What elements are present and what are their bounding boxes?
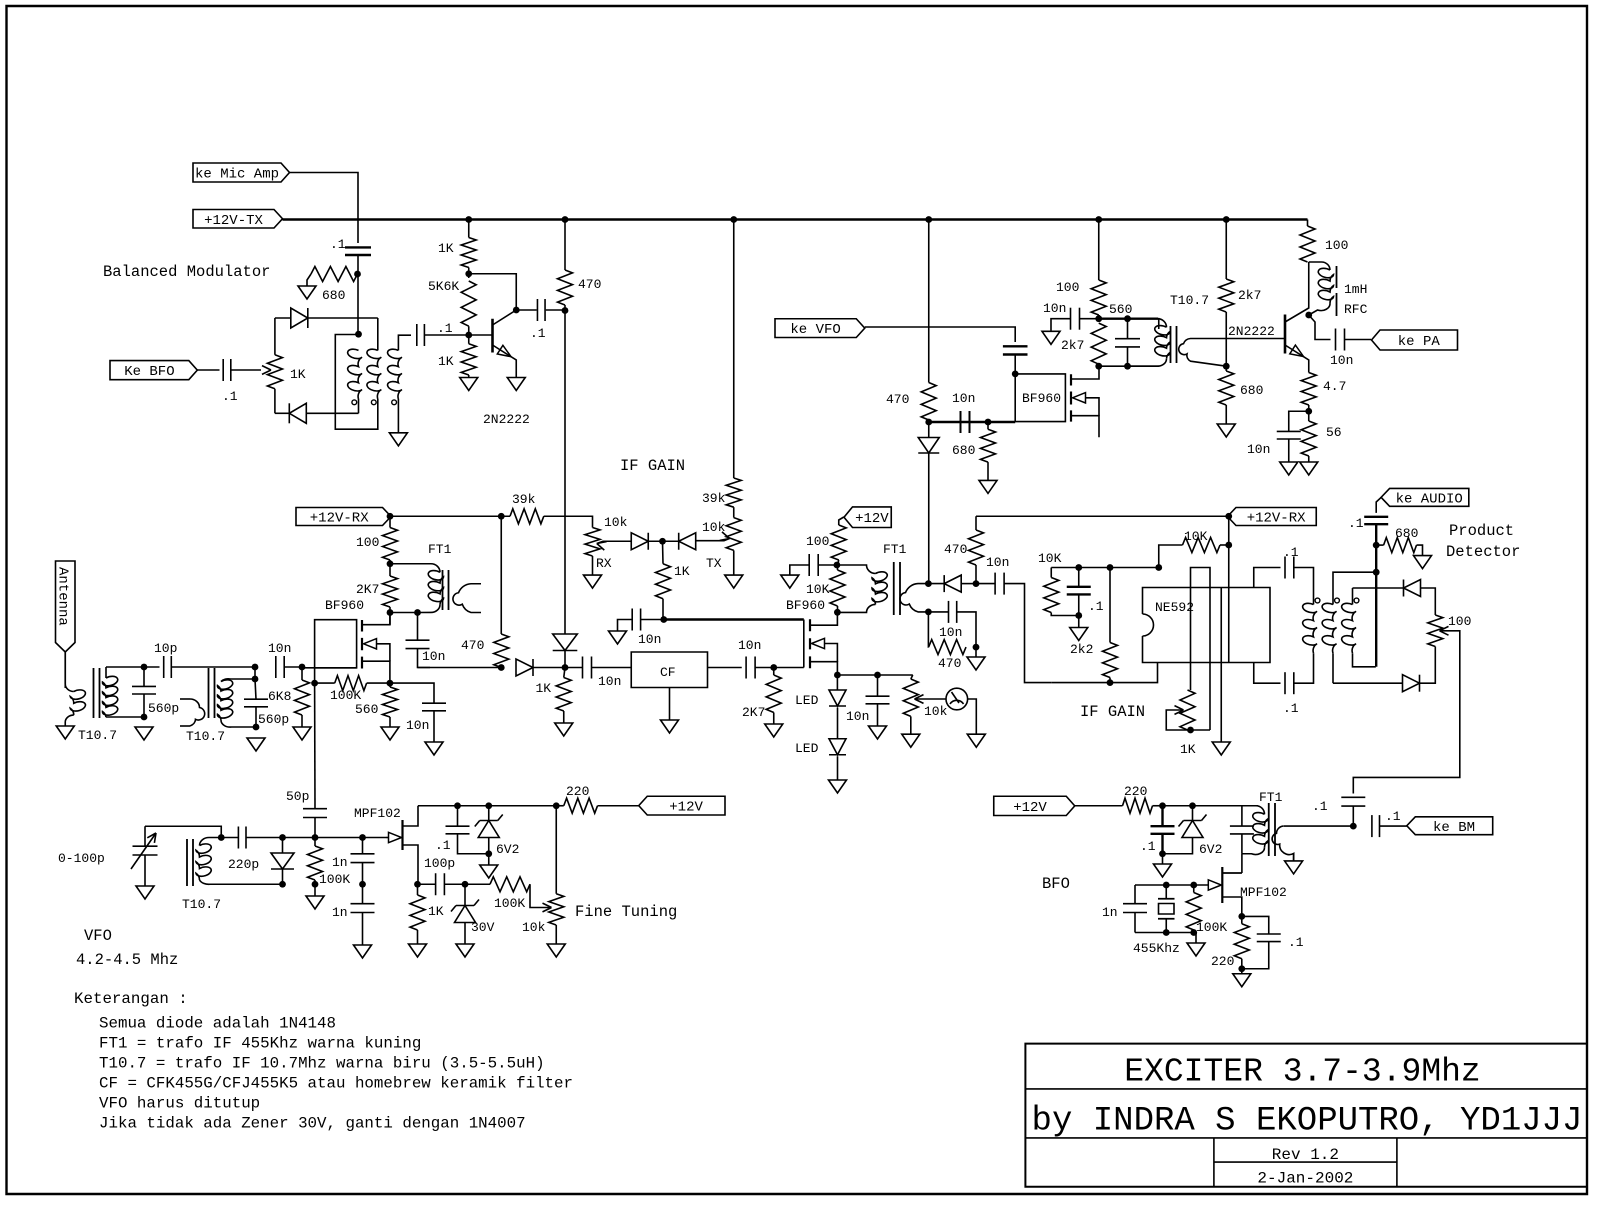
junction rail bbox=[1095, 216, 1102, 223]
emitter arrow Q1 bbox=[497, 345, 511, 356]
capacitor 1n a bbox=[351, 838, 375, 885]
wire bfo in bbox=[197, 369, 219, 371]
ground 560p 2nd bbox=[247, 738, 265, 751]
wire bbox=[1075, 805, 1123, 807]
flag +12V vfo bbox=[639, 796, 725, 815]
junction bbox=[253, 724, 260, 731]
note line 5 bbox=[99, 1095, 260, 1113]
label 2K7 bbox=[356, 582, 379, 597]
svg-text:100K: 100K bbox=[1196, 920, 1227, 935]
capacitor 1n bfo bbox=[1123, 885, 1147, 933]
label Detector bbox=[1446, 543, 1520, 561]
ground varcap bbox=[136, 886, 154, 899]
svg-text:2k2: 2k2 bbox=[1070, 642, 1093, 657]
svg-text:.1: .1 bbox=[437, 321, 453, 336]
note line 6 bbox=[99, 1115, 526, 1133]
variable capacitor 0-100p bbox=[131, 826, 158, 886]
flag +12V-TX bbox=[193, 210, 283, 229]
diode det top bbox=[1404, 580, 1421, 597]
svg-text:Ke BFO: Ke BFO bbox=[124, 364, 174, 380]
svg-text:Rev 1.2: Rev 1.2 bbox=[1272, 1146, 1339, 1164]
label 10n bbox=[939, 625, 962, 640]
ground 6V2 bbox=[480, 854, 498, 878]
label 10K bbox=[1184, 529, 1208, 544]
ground 10n meter bbox=[869, 726, 887, 739]
transformer T1 secondary bbox=[388, 349, 402, 399]
flag +12V bfo bbox=[994, 796, 1075, 816]
junction bbox=[1107, 679, 1114, 686]
transformer T4 primary stubs bbox=[180, 699, 205, 726]
junction bbox=[1107, 564, 1114, 571]
resistor 220 bfo source bbox=[1234, 916, 1249, 968]
svg-text:100p: 100p bbox=[424, 856, 455, 871]
svg-text:50p: 50p bbox=[286, 789, 309, 804]
svg-text:FT1 = trafo IF 455Khz warna ku: FT1 = trafo IF 455Khz warna kuning bbox=[99, 1035, 421, 1053]
label 10K bbox=[806, 582, 830, 597]
resistor 2k7 base bbox=[1219, 220, 1234, 372]
phase dot bbox=[1354, 598, 1359, 603]
junction bbox=[354, 271, 361, 278]
resistor 100K vfo gate bbox=[308, 838, 323, 885]
label 1K bbox=[438, 241, 454, 256]
label BF960 bbox=[1022, 391, 1061, 406]
label 10n bbox=[952, 391, 975, 406]
svg-text:220: 220 bbox=[1124, 784, 1147, 799]
label 680 bbox=[1395, 526, 1418, 541]
wire ne in bbox=[1051, 663, 1157, 683]
svg-text:56: 56 bbox=[1326, 425, 1342, 440]
resistor 100K source fb bbox=[315, 676, 390, 691]
svg-text:10K: 10K bbox=[806, 582, 830, 597]
label 560 bbox=[355, 702, 378, 717]
label 10p bbox=[154, 641, 177, 656]
wiper RX pot bbox=[597, 541, 631, 550]
resistor 100K ft bbox=[465, 877, 535, 908]
zener 30V bbox=[451, 884, 479, 944]
resistor 10K drain bbox=[830, 565, 845, 612]
junction bbox=[312, 881, 319, 888]
svg-text:100K: 100K bbox=[330, 688, 361, 703]
label 470 bbox=[578, 277, 601, 292]
junction bbox=[414, 609, 421, 616]
svg-text:RX: RX bbox=[596, 556, 612, 571]
transistor Q2 2N2222 bbox=[1285, 262, 1309, 373]
wire T2 sec to base bbox=[1197, 338, 1286, 340]
junction bbox=[1124, 363, 1131, 370]
capacitor 10n VFO inject bbox=[1003, 346, 1028, 354]
junction rail bbox=[730, 216, 737, 223]
label 680 bbox=[952, 443, 975, 458]
capacitor 10n IF out bbox=[406, 613, 431, 668]
ground RX pot bbox=[584, 575, 602, 588]
svg-text:10n: 10n bbox=[638, 632, 661, 647]
label 100K bbox=[494, 896, 525, 911]
wire tank bottom bbox=[1099, 364, 1159, 366]
resistor 680 base bbox=[1219, 371, 1234, 424]
svg-text:+12V: +12V bbox=[1013, 800, 1047, 816]
svg-text:10p: 10p bbox=[154, 641, 177, 656]
svg-text:.1: .1 bbox=[1283, 545, 1299, 560]
svg-text:ke AUDIO: ke AUDIO bbox=[1396, 491, 1463, 507]
junction bbox=[311, 680, 318, 687]
note line 2 bbox=[99, 1035, 421, 1053]
svg-text:560: 560 bbox=[355, 702, 378, 717]
wire +12V-RX right rail bbox=[976, 515, 1229, 517]
junction bbox=[387, 680, 394, 687]
svg-text:Balanced Modulator: Balanced Modulator bbox=[103, 263, 270, 281]
svg-text:VFO harus ditutup: VFO harus ditutup bbox=[99, 1095, 260, 1113]
wire bbox=[755, 667, 804, 669]
label 50p bbox=[286, 789, 309, 804]
label 100 bbox=[1325, 238, 1348, 253]
ground LED bbox=[829, 780, 847, 793]
wire bfo drain bbox=[1222, 854, 1242, 873]
wire gate2 bus bbox=[664, 618, 804, 620]
phase dot bbox=[1315, 598, 1320, 603]
svg-text:T10.7: T10.7 bbox=[186, 729, 225, 744]
label 10n bbox=[738, 638, 761, 653]
wire bbox=[1294, 568, 1314, 605]
zener 6V2 vfo bbox=[475, 806, 503, 854]
wire cap to base node bbox=[424, 334, 468, 336]
svg-text:100: 100 bbox=[1325, 238, 1348, 253]
phase dot a bbox=[352, 400, 357, 405]
ic gnd pin line bbox=[1220, 588, 1222, 743]
svg-text:T10.7: T10.7 bbox=[182, 897, 221, 912]
mosfet U1 channel bbox=[361, 620, 363, 669]
label 455Khz bbox=[1133, 941, 1180, 956]
svg-text:10n: 10n bbox=[598, 674, 621, 689]
wire bbox=[389, 560, 391, 576]
wire bbox=[961, 583, 976, 585]
svg-text:100K: 100K bbox=[319, 872, 350, 887]
capacitor 10n to NE592 bbox=[976, 573, 1004, 595]
title EXCITER bbox=[1124, 1054, 1480, 1091]
svg-text:6K8: 6K8 bbox=[268, 689, 291, 704]
junction bbox=[1187, 727, 1194, 734]
label 2k7 bbox=[1238, 288, 1261, 303]
label 56 bbox=[1326, 425, 1342, 440]
label 100 bbox=[1056, 280, 1079, 295]
ground 560p bbox=[135, 727, 153, 740]
wire TX gain feed bbox=[733, 220, 735, 479]
label 1n bbox=[332, 905, 348, 920]
transformer FT3 secondary bbox=[900, 584, 928, 612]
wire bfo supply bbox=[1163, 805, 1259, 807]
svg-text:2k7: 2k7 bbox=[1061, 338, 1084, 353]
resistor 470 IF bbox=[494, 516, 509, 667]
svg-text:10K: 10K bbox=[1184, 529, 1208, 544]
capacitor .1 ke bm bbox=[1372, 815, 1380, 837]
svg-text:.1: .1 bbox=[530, 326, 546, 341]
capacitor .1 bfo coupling bbox=[223, 359, 231, 381]
svg-text:+12V-TX: +12V-TX bbox=[204, 213, 263, 229]
label 100 bbox=[356, 535, 379, 550]
label FT1 bbox=[428, 542, 452, 557]
junction bbox=[1095, 363, 1102, 370]
label .1 bbox=[435, 838, 451, 853]
wire bbox=[389, 516, 391, 527]
phase dot bbox=[1335, 598, 1340, 603]
junction center tap bbox=[355, 331, 362, 338]
resistor 5K6K feedback bbox=[461, 281, 476, 326]
svg-text:680: 680 bbox=[952, 443, 975, 458]
junction bbox=[299, 664, 306, 671]
wire 10n left bbox=[790, 565, 809, 575]
label Keterangan : bbox=[74, 990, 188, 1008]
wire ke VFO bbox=[865, 327, 1015, 342]
label 100p bbox=[424, 856, 455, 871]
label 30V bbox=[471, 920, 495, 935]
title divider 1 bbox=[1025, 1088, 1587, 1090]
ground Q1 emitter bbox=[507, 378, 525, 391]
label T10.7 bbox=[1170, 293, 1209, 308]
transformer FT2 secondary bbox=[453, 584, 481, 613]
label 1K bbox=[1180, 742, 1196, 757]
ground vfo bus bbox=[306, 884, 324, 909]
svg-text:1K: 1K bbox=[536, 681, 552, 696]
capacitor .1 bfo source bbox=[1242, 916, 1281, 968]
flag ke BM bbox=[1407, 817, 1493, 836]
wire tank top bbox=[1099, 315, 1158, 319]
diode IF tx bbox=[516, 659, 533, 676]
junction bbox=[141, 664, 148, 671]
label Balanced Modulator bbox=[103, 263, 270, 281]
flag +12V TXIF bbox=[844, 507, 891, 528]
mosfet U3 right edge bbox=[803, 620, 805, 668]
resistor 2k7 gate2 bias bbox=[1091, 323, 1106, 364]
wire tank top right bbox=[1128, 319, 1159, 329]
wire bbox=[564, 650, 566, 668]
junction bbox=[985, 419, 992, 426]
wire T1 outer right bbox=[377, 318, 379, 350]
svg-text:680: 680 bbox=[322, 288, 345, 303]
svg-text:470: 470 bbox=[944, 542, 967, 557]
label T10.7 bbox=[182, 897, 221, 912]
ground 680 tx bbox=[979, 480, 997, 493]
svg-text:BF960: BF960 bbox=[1022, 391, 1061, 406]
svg-text:.1: .1 bbox=[222, 389, 238, 404]
wire bbox=[837, 708, 839, 739]
junction bbox=[1159, 802, 1166, 809]
label 10n bbox=[268, 641, 291, 656]
wire vfo top bbox=[145, 826, 221, 837]
svg-text:10k: 10k bbox=[522, 920, 546, 935]
junction rail bbox=[1223, 216, 1230, 223]
junction bbox=[387, 609, 394, 616]
resistor 1K gain set bbox=[656, 541, 671, 619]
junction bbox=[218, 834, 225, 841]
svg-text:2N2222: 2N2222 bbox=[483, 412, 530, 427]
label 0-100p bbox=[58, 851, 105, 866]
svg-text:10n: 10n bbox=[1330, 353, 1353, 368]
mosfet U1 substrate bbox=[364, 639, 390, 662]
label .1 bbox=[330, 237, 346, 252]
label .1 bbox=[1312, 799, 1328, 814]
resistor 39k RX bbox=[510, 509, 544, 524]
label BF960 bbox=[325, 598, 364, 613]
ground 1K vfo bbox=[409, 944, 427, 957]
title by line bbox=[1032, 1103, 1583, 1141]
label 470 bbox=[886, 392, 909, 407]
svg-text:FT1: FT1 bbox=[1259, 790, 1283, 805]
LED D1 bbox=[829, 690, 846, 706]
label IF GAIN bbox=[620, 457, 685, 475]
capacitor 10n gate2 bypass bbox=[1071, 308, 1099, 330]
resistor 560 source bbox=[383, 683, 398, 727]
resistor 100 supply bbox=[831, 525, 846, 565]
mosfet U2 substrate bbox=[1073, 393, 1100, 416]
label 100K bbox=[1196, 920, 1227, 935]
ground 2K7 bbox=[765, 724, 783, 737]
inductor RFC 1mH bbox=[1309, 262, 1334, 315]
label 560p bbox=[148, 701, 179, 716]
label Product bbox=[1449, 522, 1514, 540]
capacitor 10n gate2 bbox=[632, 609, 640, 631]
label FT1 bbox=[1259, 790, 1283, 805]
flag ke PA bbox=[1372, 330, 1458, 350]
capacitor .1 bm bbox=[1341, 797, 1365, 826]
junction bbox=[462, 881, 469, 888]
wire bbox=[254, 667, 256, 679]
wire bbox=[1051, 319, 1071, 332]
label 100 bbox=[1448, 614, 1471, 629]
wire 470 drop bbox=[928, 220, 930, 383]
wire bottom diode left bbox=[275, 412, 289, 414]
transformer FT3 core bbox=[894, 562, 900, 615]
label 220 bbox=[1124, 784, 1147, 799]
ground fine pot bbox=[547, 944, 565, 957]
svg-text:.1: .1 bbox=[1140, 839, 1156, 854]
junction rail bbox=[925, 216, 932, 223]
junction bbox=[1163, 929, 1170, 936]
wire to ke PA bbox=[1345, 339, 1372, 341]
ground NE592 bbox=[1212, 742, 1230, 755]
junction bbox=[279, 881, 286, 888]
junction bbox=[973, 644, 980, 651]
resistor 2K7 cf out bbox=[766, 668, 781, 725]
svg-text:BF960: BF960 bbox=[786, 598, 825, 613]
junction bbox=[1225, 542, 1232, 549]
wire bfo out bbox=[1284, 825, 1354, 827]
transformer FT2 core bbox=[443, 570, 449, 610]
capacitor 560 tank bbox=[1115, 319, 1140, 367]
junction bbox=[1155, 564, 1162, 571]
transformer T3 primary bbox=[65, 652, 85, 726]
junction bbox=[874, 672, 881, 679]
label .1 bbox=[437, 321, 453, 336]
svg-text:10n: 10n bbox=[738, 638, 761, 653]
flag Ke BFO bbox=[110, 361, 197, 381]
core RFC bbox=[1336, 266, 1338, 316]
wire bfo to pot bbox=[231, 369, 261, 371]
svg-text:RFC: RFC bbox=[1344, 302, 1368, 317]
wire ft1 top bbox=[390, 563, 417, 565]
capacitor 10n emitter bypass bbox=[1277, 411, 1309, 462]
label 470 bbox=[461, 638, 484, 653]
label 6K8 bbox=[268, 689, 291, 704]
label Fine Tuning bbox=[575, 903, 677, 921]
ground 680 bbox=[1217, 424, 1235, 437]
svg-text:100: 100 bbox=[356, 535, 379, 550]
ground 1K base bbox=[460, 378, 478, 391]
svg-text:Jika tidak ada Zener 30V, gant: Jika tidak ada Zener 30V, ganti dengan 1… bbox=[99, 1115, 526, 1133]
junction bbox=[973, 580, 980, 587]
svg-text:10K: 10K bbox=[1038, 551, 1062, 566]
label 10n bbox=[1330, 353, 1353, 368]
ic NE592 box bbox=[1143, 588, 1271, 663]
label 2k7 bbox=[1061, 338, 1084, 353]
flag +12V-RX left bbox=[296, 508, 391, 527]
wiper 100 det bbox=[1353, 626, 1460, 793]
wire w1 bottom bbox=[358, 399, 360, 413]
label 220 bbox=[566, 784, 589, 799]
resistor 680 tx gate bbox=[981, 422, 996, 480]
transformer T3 core bbox=[94, 668, 100, 718]
svg-text:1K: 1K bbox=[438, 354, 454, 369]
junction bbox=[925, 419, 932, 426]
svg-text:10n: 10n bbox=[939, 625, 962, 640]
transformer T2 secondary bbox=[1179, 339, 1227, 367]
resistor 100 collector bbox=[1300, 220, 1315, 263]
ground T1 secondary bbox=[389, 433, 407, 446]
junction bbox=[1124, 315, 1131, 322]
wire mic line bbox=[290, 173, 359, 244]
svg-text:10k: 10k bbox=[924, 704, 948, 719]
capacitor 10n rx-tx bbox=[961, 411, 970, 433]
svg-text:BFO: BFO bbox=[1042, 875, 1070, 893]
svg-text:4.2-4.5 Mhz: 4.2-4.5 Mhz bbox=[76, 951, 178, 969]
junction bbox=[252, 676, 259, 683]
junction bbox=[312, 834, 319, 841]
transformer T1 winding b bbox=[367, 349, 381, 399]
wire meter bus bbox=[837, 674, 912, 676]
label 1K bbox=[290, 367, 306, 382]
capacitor bfo tank bbox=[1230, 806, 1254, 854]
resistor 56 emitter bbox=[1301, 421, 1316, 462]
mosfet U2 channel bbox=[1070, 374, 1072, 421]
svg-text:.1: .1 bbox=[1088, 599, 1104, 614]
label 10k bbox=[924, 704, 948, 719]
wire diode link bbox=[648, 540, 678, 542]
junction bbox=[1075, 564, 1082, 571]
diode D1 top bbox=[291, 308, 308, 328]
label 10k bbox=[604, 515, 628, 530]
wire antenna bbox=[64, 652, 66, 688]
svg-text:1K: 1K bbox=[674, 564, 690, 579]
transformer FT4 core bbox=[1269, 803, 1275, 856]
potentiometer 1K balance bbox=[267, 318, 282, 413]
label LED bbox=[795, 693, 819, 708]
label 1K bbox=[536, 681, 552, 696]
svg-text:100K: 100K bbox=[494, 896, 525, 911]
junction rail bbox=[562, 216, 569, 223]
ground 10n tx bbox=[781, 575, 799, 588]
wire bbox=[1014, 355, 1016, 374]
wire top diode bbox=[275, 317, 291, 319]
resistor 470 RX feed bbox=[921, 383, 936, 421]
svg-text:2K7: 2K7 bbox=[356, 582, 379, 597]
filter CF box bbox=[631, 652, 707, 688]
svg-text:BF960: BF960 bbox=[325, 598, 364, 613]
potentiometer 10k meter bbox=[903, 675, 918, 734]
wire IF takeoff down bbox=[564, 311, 566, 635]
capacitor 100p fb bbox=[418, 873, 465, 895]
ic v+ pin line bbox=[1228, 588, 1230, 663]
wire bbox=[1380, 825, 1407, 827]
resistor 100 drain bbox=[383, 528, 398, 561]
ground 680 audio bbox=[1414, 556, 1432, 569]
